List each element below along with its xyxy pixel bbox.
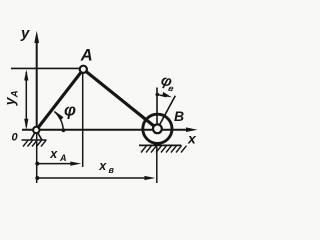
label x_B: [98, 159, 114, 175]
svg-text:x: x: [49, 147, 58, 161]
pivot O support triangle: [31, 133, 42, 140]
x axis: [22, 129, 190, 131]
svg-text:A: A: [10, 90, 21, 98]
y_A top arrowhead: [24, 69, 28, 80]
x_B arrowhead: [144, 176, 155, 180]
wheel rim at B: [143, 114, 172, 143]
svg-text:B: B: [174, 108, 184, 124]
pivot O hatch base line: [22, 139, 47, 141]
phi arc arrowhead: [54, 111, 63, 121]
y axis: [36, 41, 38, 132]
horizontal projection line at A height: [11, 67, 80, 69]
pivot O circle: [33, 127, 39, 133]
crank OA: [36, 69, 83, 130]
x_A base dot: [35, 162, 39, 166]
svg-text:φ: φ: [64, 101, 76, 120]
pivot O ground hatching: [23, 140, 46, 146]
x axis arrowhead: [186, 127, 198, 132]
label y_A (rotated): [1, 90, 20, 106]
wheel hub circle: [153, 124, 162, 133]
x_B base dot: [35, 176, 39, 180]
svg-text:x: x: [187, 130, 197, 146]
label x_A: [49, 147, 66, 163]
dimension y_A line: [25, 72, 27, 127]
angle phi_B arc: [157, 94, 166, 96]
phi arc base dot: [62, 128, 66, 132]
dimension x_B line: [37, 177, 147, 179]
tilted radius line at B: [157, 96, 175, 129]
angle phi arc: [54, 112, 63, 131]
rod AB: [83, 69, 157, 129]
svg-text:0: 0: [12, 132, 19, 144]
svg-text:x: x: [98, 159, 107, 173]
y_A bottom arrowhead: [24, 119, 28, 130]
vertical radius line at B: [156, 88, 158, 129]
vertical projection line below B: [156, 147, 158, 184]
joint A circle: [80, 66, 87, 73]
svg-text:y: y: [20, 25, 30, 42]
ground hatching under wheel: [141, 146, 187, 153]
phi_B junction dot: [156, 93, 160, 97]
svg-text:A: A: [80, 47, 93, 65]
x_A arrowhead: [70, 162, 81, 166]
svg-text:A: A: [59, 153, 67, 163]
svg-text:в: в: [109, 165, 115, 175]
vertical line below O: [36, 133, 38, 183]
phi_B arc arrowhead: [162, 92, 172, 97]
ground line under wheel: [139, 144, 182, 146]
projection line from A down: [82, 74, 84, 168]
dimension x_A line: [37, 163, 73, 165]
y axis arrowhead: [34, 31, 39, 43]
label phi_B: [159, 72, 178, 94]
